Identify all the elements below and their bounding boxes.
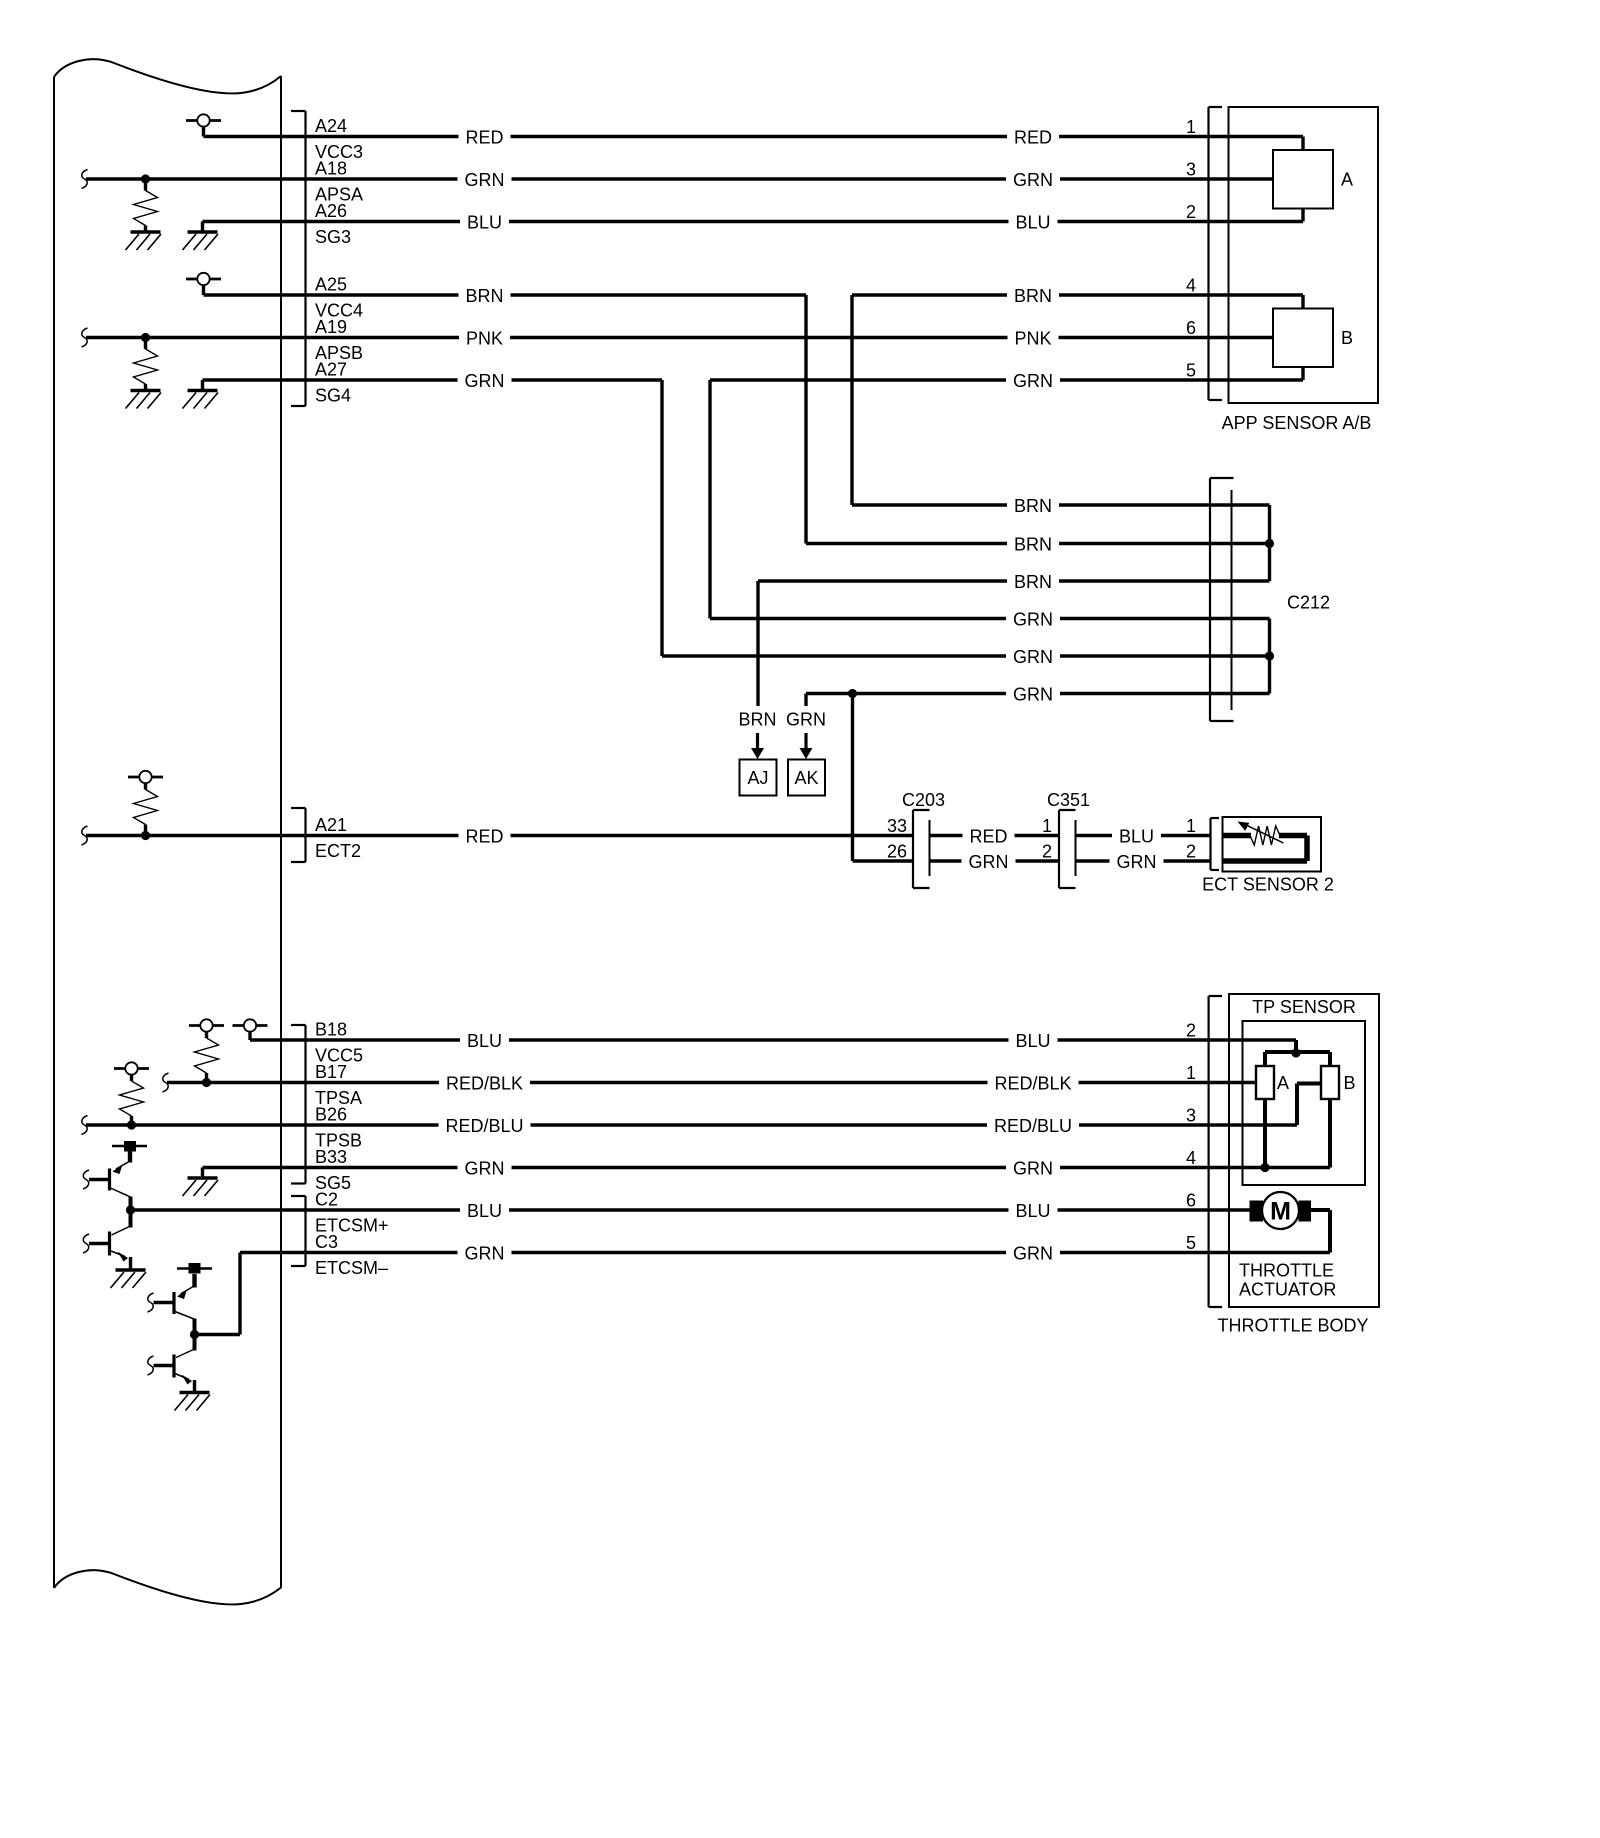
wire C212 row6 GRN (to AK and ECT): [806, 684, 1270, 862]
APP sensor A/B box: [1229, 107, 1379, 403]
pin A25/VCC4 label: [315, 275, 363, 321]
svg-text:ECT SENSOR 2: ECT SENSOR 2: [1202, 875, 1334, 895]
svg-text:A19: A19: [315, 317, 347, 337]
label THROTTLE ACTUATOR: [1239, 1261, 1336, 1300]
wire A27 GRN (SG4 to C212): [203, 370, 663, 656]
svg-text:3: 3: [1186, 160, 1196, 180]
svg-text:RED/BLU: RED/BLU: [445, 1116, 523, 1136]
svg-text:BLU: BLU: [467, 1031, 502, 1051]
svg-text:AJ: AJ: [747, 768, 768, 788]
ECT sensor 2 box: [1223, 817, 1322, 872]
connector C351: [1042, 790, 1090, 888]
svg-text:A18: A18: [315, 159, 347, 179]
wire break hook A21: [82, 826, 88, 845]
svg-text:A21: A21: [315, 815, 347, 835]
svg-text:GRN: GRN: [969, 852, 1009, 872]
svg-text:PNK: PNK: [1014, 329, 1051, 349]
svg-text:BRN: BRN: [465, 286, 503, 306]
svg-text:BLU: BLU: [1015, 1201, 1050, 1221]
motor M (throttle actuator): [1250, 1192, 1312, 1229]
svg-text:C2: C2: [315, 1190, 338, 1210]
svg-text:APP SENSOR A/B: APP SENSOR A/B: [1222, 413, 1372, 433]
wire C212 row1 BRN: [852, 495, 1270, 516]
pin A26/SG3 label: [315, 201, 351, 247]
svg-text:RED/BLU: RED/BLU: [994, 1116, 1072, 1136]
svg-text:B33: B33: [315, 1147, 347, 1167]
ground SG3: [183, 222, 219, 251]
label THROTTLE BODY: [1217, 1316, 1368, 1336]
pin A21/ECT2 label: [315, 815, 361, 861]
pin A18/APSA label: [315, 159, 363, 205]
wire B17 RED/BLK to TP pin 1: [167, 1063, 1256, 1094]
pin A24/VCC3 label: [315, 116, 363, 162]
svg-text:GRN: GRN: [1013, 1244, 1053, 1264]
voltage source VCC5 (circle feeding B18): [233, 1019, 268, 1040]
voltage source (ECT2 pull-up circle): [128, 771, 163, 783]
svg-text:2: 2: [1042, 842, 1052, 862]
svg-text:BLU: BLU: [1015, 1031, 1050, 1051]
ECM connector bracket (B18-SG5): [291, 1025, 306, 1184]
junction dot on APSA line: [141, 174, 150, 183]
wire C212 row2 BRN: [806, 534, 1270, 555]
wire C2 BLU to motor pin 6: [131, 1191, 1251, 1222]
wire A26 BLU to APP pin 2: [203, 202, 1304, 233]
svg-text:5: 5: [1186, 1233, 1196, 1253]
destination box AK: [788, 760, 825, 796]
ECM connector bracket (A24-SG4): [291, 111, 306, 406]
motor return wire: [1310, 1210, 1330, 1253]
pin C2/ETCSM+ label: [315, 1190, 389, 1236]
node ETCSM- (junction dot): [190, 1319, 199, 1340]
junction dot on APSB line: [141, 333, 150, 342]
svg-text:GRN: GRN: [786, 710, 826, 730]
wire A18 GRN to APP pin 3: [86, 160, 1273, 191]
TP sensor element A: [1256, 1066, 1289, 1099]
wire break hook A18: [82, 170, 88, 189]
wire B26 RED/BLU to TP pin 3: [86, 1106, 1297, 1137]
svg-text:C351: C351: [1047, 790, 1090, 810]
wire break hook Q1 base: [83, 1170, 89, 1189]
svg-text:BRN: BRN: [1014, 496, 1052, 516]
svg-text:THROTTLE: THROTTLE: [1239, 1261, 1334, 1281]
svg-text:PNK: PNK: [466, 329, 503, 349]
resistor (TPSB pull-up): [120, 1075, 144, 1126]
junction dot on TPSA line: [202, 1078, 211, 1087]
wire break hook Q2 base: [83, 1234, 89, 1253]
svg-text:TP SENSOR: TP SENSOR: [1252, 997, 1356, 1017]
label GRN above AK: [786, 710, 826, 730]
arrow to AK: [800, 733, 813, 759]
pin B26/TPSB label: [315, 1105, 362, 1151]
resistor (APSB pull-down): [134, 338, 158, 391]
svg-text:BRN: BRN: [738, 710, 776, 730]
wire GRN C351-ECT pin2: [1076, 842, 1211, 873]
label APP SENSOR A/B: [1222, 413, 1372, 433]
svg-text:ECT2: ECT2: [315, 841, 361, 861]
svg-text:B: B: [1344, 1073, 1356, 1093]
TP sensor bottom rail: [1260, 1099, 1330, 1172]
svg-text:A: A: [1341, 170, 1353, 190]
APP sensor connector bracket: [1209, 107, 1223, 400]
svg-text:1: 1: [1186, 1063, 1196, 1083]
transistor Q2: [89, 1211, 131, 1271]
svg-text:1: 1: [1042, 816, 1052, 836]
svg-text:A27: A27: [315, 360, 347, 380]
throttle body box: [1229, 994, 1379, 1307]
transistor Q3: [154, 1274, 195, 1319]
wire B33 GRN to TP pin 4: [203, 1148, 1331, 1179]
wire break hook Q4 base: [148, 1356, 154, 1375]
resistor (APSA pull-down): [134, 179, 158, 232]
voltage source (TPSB pull-up circle): [114, 1062, 149, 1074]
svg-text:GRN: GRN: [465, 1159, 505, 1179]
svg-text:2: 2: [1186, 202, 1196, 222]
svg-text:B: B: [1341, 328, 1353, 348]
connector C203: [887, 790, 945, 888]
svg-text:GRN: GRN: [465, 170, 505, 190]
svg-text:BLU: BLU: [1119, 827, 1154, 847]
svg-text:B26: B26: [315, 1105, 347, 1125]
svg-text:GRN: GRN: [1013, 170, 1053, 190]
svg-text:ACTUATOR: ACTUATOR: [1239, 1280, 1336, 1300]
throttle body connector bracket: [1209, 996, 1223, 1307]
wire GRN C203-C351: [930, 851, 1060, 872]
arrow to AJ: [751, 733, 764, 759]
svg-text:RED/BLK: RED/BLK: [994, 1074, 1071, 1094]
transistor Q1: [89, 1152, 131, 1198]
wire A24 RED to APP pin 1: [204, 117, 1304, 148]
wire ETCSM- internal: [195, 1253, 241, 1335]
C212 splice (right side BRN): [1265, 505, 1274, 581]
collector supply square (Q3): [177, 1263, 212, 1274]
svg-text:A24: A24: [315, 116, 347, 136]
svg-text:GRN: GRN: [1117, 852, 1157, 872]
wire A19 PNK to APP pin 6: [86, 318, 1273, 349]
svg-text:THROTTLE BODY: THROTTLE BODY: [1217, 1316, 1368, 1336]
ECM connector bracket (C2-C3): [291, 1196, 306, 1266]
svg-text:33: 33: [887, 816, 907, 836]
svg-text:ETCSM–: ETCSM–: [315, 1258, 388, 1278]
svg-text:BRN: BRN: [1014, 572, 1052, 592]
ground (APSB pull-down): [126, 391, 162, 409]
svg-text:GRN: GRN: [1013, 685, 1053, 705]
wire A21 RED to C203 pin 33: [86, 826, 913, 847]
svg-text:A25: A25: [315, 275, 347, 295]
svg-text:GRN: GRN: [1013, 1159, 1053, 1179]
APP sensor element A: [1273, 137, 1353, 222]
pin B17/TPSA label: [315, 1062, 362, 1108]
pin B18/VCC5 label: [315, 1020, 363, 1066]
voltage source VCC3 (pull-up circle): [186, 114, 221, 136]
pin C3/ETCSM- label: [315, 1232, 388, 1278]
connector C212: [1210, 478, 1330, 721]
junction dot on TPSB line: [127, 1120, 136, 1129]
svg-text:M: M: [1270, 1198, 1291, 1226]
svg-text:4: 4: [1186, 1148, 1196, 1168]
ECT sensor 2 connector bracket: [1211, 818, 1220, 870]
svg-text:3: 3: [1186, 1106, 1196, 1126]
svg-text:SG3: SG3: [315, 227, 351, 247]
resistor (TPSA pull-up): [195, 1032, 219, 1083]
svg-text:A26: A26: [315, 201, 347, 221]
wire ECT GRN to C203 pin 26: [853, 859, 914, 862]
TP sensor element B: [1321, 1066, 1356, 1099]
svg-text:RED: RED: [1014, 128, 1052, 148]
svg-text:5: 5: [1186, 361, 1196, 381]
ECM/PCM module boundary (torn edges): [54, 59, 281, 1604]
svg-text:GRN: GRN: [465, 1244, 505, 1264]
pin A27/SG4 label: [315, 360, 351, 406]
svg-text:B17: B17: [315, 1062, 347, 1082]
collector supply square (Q1): [112, 1141, 147, 1152]
svg-text:1: 1: [1186, 816, 1196, 836]
svg-text:A: A: [1277, 1073, 1289, 1093]
label ECT SENSOR 2: [1202, 875, 1334, 895]
svg-text:AK: AK: [794, 768, 818, 788]
svg-text:BRN: BRN: [1014, 535, 1052, 555]
wire GRN APP pin 5 to C212: [710, 361, 1303, 619]
svg-text:GRN: GRN: [1013, 610, 1053, 630]
svg-text:C203: C203: [902, 790, 945, 810]
wire C3 GRN to motor pin 5: [240, 1233, 1330, 1264]
svg-text:2: 2: [1186, 842, 1196, 862]
svg-text:4: 4: [1186, 276, 1196, 296]
pin B33/SG5 label: [315, 1147, 351, 1193]
svg-text:BRN: BRN: [1014, 286, 1052, 306]
svg-text:BLU: BLU: [467, 1201, 502, 1221]
wire C212 row3 BRN (to AJ): [758, 571, 1270, 706]
label BRN above AJ: [738, 710, 776, 730]
svg-text:BLU: BLU: [1015, 213, 1050, 233]
ground SG5: [183, 1168, 219, 1197]
pin A19/APSB label: [315, 317, 363, 363]
wire B18 BLU to TP pin 2: [250, 1021, 1296, 1052]
ground (Q2 emitter): [111, 1270, 147, 1288]
svg-text:6: 6: [1186, 1191, 1196, 1211]
wire C212 row5 GRN: [662, 646, 1270, 667]
TP sensor B feed: [1297, 1084, 1321, 1126]
ground (APSA pull-down): [126, 232, 162, 250]
label TP SENSOR: [1252, 997, 1356, 1017]
wire break hook A19: [82, 328, 88, 347]
node ETCSM+ (junction dot): [126, 1197, 135, 1215]
svg-text:C212: C212: [1287, 593, 1330, 613]
svg-text:26: 26: [887, 842, 907, 862]
svg-text:B18: B18: [315, 1020, 347, 1040]
wire break hook Q3 base: [148, 1293, 154, 1312]
svg-text:RED: RED: [465, 827, 503, 847]
wire BRN APP pin 4 to C212: [852, 276, 1303, 506]
voltage source VCC5 (pull-up circle, TPSA): [189, 1019, 224, 1031]
APP sensor element B: [1273, 295, 1353, 380]
wire break hook B17: [163, 1073, 169, 1092]
svg-text:2: 2: [1186, 1021, 1196, 1041]
junction dot on ECT2 line: [141, 831, 150, 840]
wire RED C203-C351: [930, 826, 1060, 847]
svg-text:RED/BLK: RED/BLK: [446, 1074, 523, 1094]
svg-text:GRN: GRN: [1013, 371, 1053, 391]
transistor Q4: [154, 1335, 195, 1393]
svg-text:1: 1: [1186, 117, 1196, 137]
thermistor element (ECT sensor 2): [1223, 822, 1308, 862]
ground (Q4 emitter): [175, 1393, 211, 1411]
svg-text:GRN: GRN: [465, 371, 505, 391]
svg-text:RED: RED: [969, 827, 1007, 847]
svg-text:RED: RED: [465, 128, 503, 148]
resistor (ECT2 pull-up): [134, 783, 158, 836]
destination box AJ: [740, 760, 777, 796]
voltage source VCC4 (pull-up circle): [186, 273, 221, 295]
svg-text:C3: C3: [315, 1232, 338, 1252]
TP sensor inner box: [1243, 1021, 1366, 1185]
wire C212 row4 GRN: [710, 609, 1270, 630]
wire BLU C351-ECT pin1: [1076, 816, 1211, 847]
wire break hook B26: [82, 1116, 88, 1135]
ECM connector bracket (A21): [291, 808, 306, 862]
TP sensor top rail: [1265, 1040, 1330, 1066]
svg-text:6: 6: [1186, 318, 1196, 338]
svg-text:GRN: GRN: [1013, 647, 1053, 667]
svg-text:BLU: BLU: [467, 213, 502, 233]
wire A25 BRN (VCC4 to C212): [204, 285, 807, 544]
svg-text:SG4: SG4: [315, 386, 351, 406]
C212 splice (right side GRN): [1265, 619, 1274, 694]
ground SG4: [183, 380, 219, 409]
